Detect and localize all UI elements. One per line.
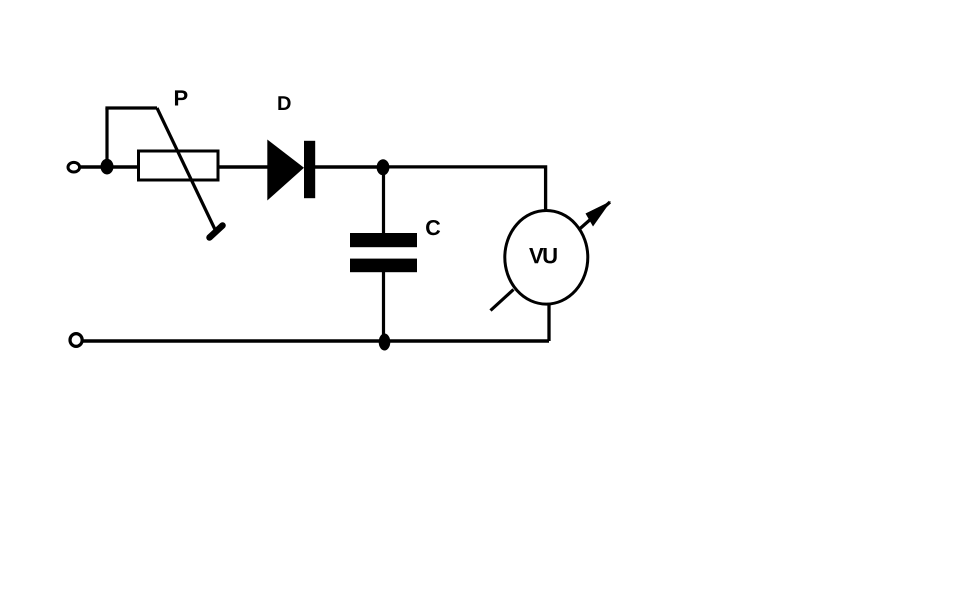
label D (278, 96, 290, 110)
meter needle upper segment (579, 202, 610, 230)
wire capacitor to node C (382, 272, 385, 340)
label VU (529, 248, 557, 263)
terminal input top (68, 162, 80, 172)
label P (175, 90, 187, 105)
potentiometer P wiper end tick (210, 226, 223, 238)
wire node A up (105, 108, 108, 167)
label C (426, 220, 440, 235)
wire diode to node B (315, 165, 379, 168)
potentiometer P body (139, 151, 219, 180)
wire node B down to capacitor (382, 167, 385, 234)
capacitor C top plate (350, 233, 417, 247)
wire bottom rail up to meter (547, 302, 550, 341)
potentiometer P wiper diagonal (157, 108, 216, 231)
diode D cathode bar (304, 141, 315, 198)
wire node A to potentiometer (107, 165, 139, 168)
meter VU body (505, 210, 588, 304)
wire bottom rail (82, 339, 549, 342)
capacitor C bottom plate (350, 259, 417, 273)
node B (377, 159, 390, 175)
node C (379, 334, 391, 351)
wire node B to meter top (383, 167, 546, 210)
diode D anode triangle (267, 140, 304, 201)
meter needle arrowhead (586, 201, 612, 227)
wire terminal to node A (79, 165, 104, 168)
terminal input bottom (70, 334, 82, 347)
meter needle lower segment (491, 290, 514, 311)
wire top horizontal to wiper (105, 106, 157, 109)
node A (101, 159, 114, 175)
wire potentiometer to diode (218, 165, 269, 168)
